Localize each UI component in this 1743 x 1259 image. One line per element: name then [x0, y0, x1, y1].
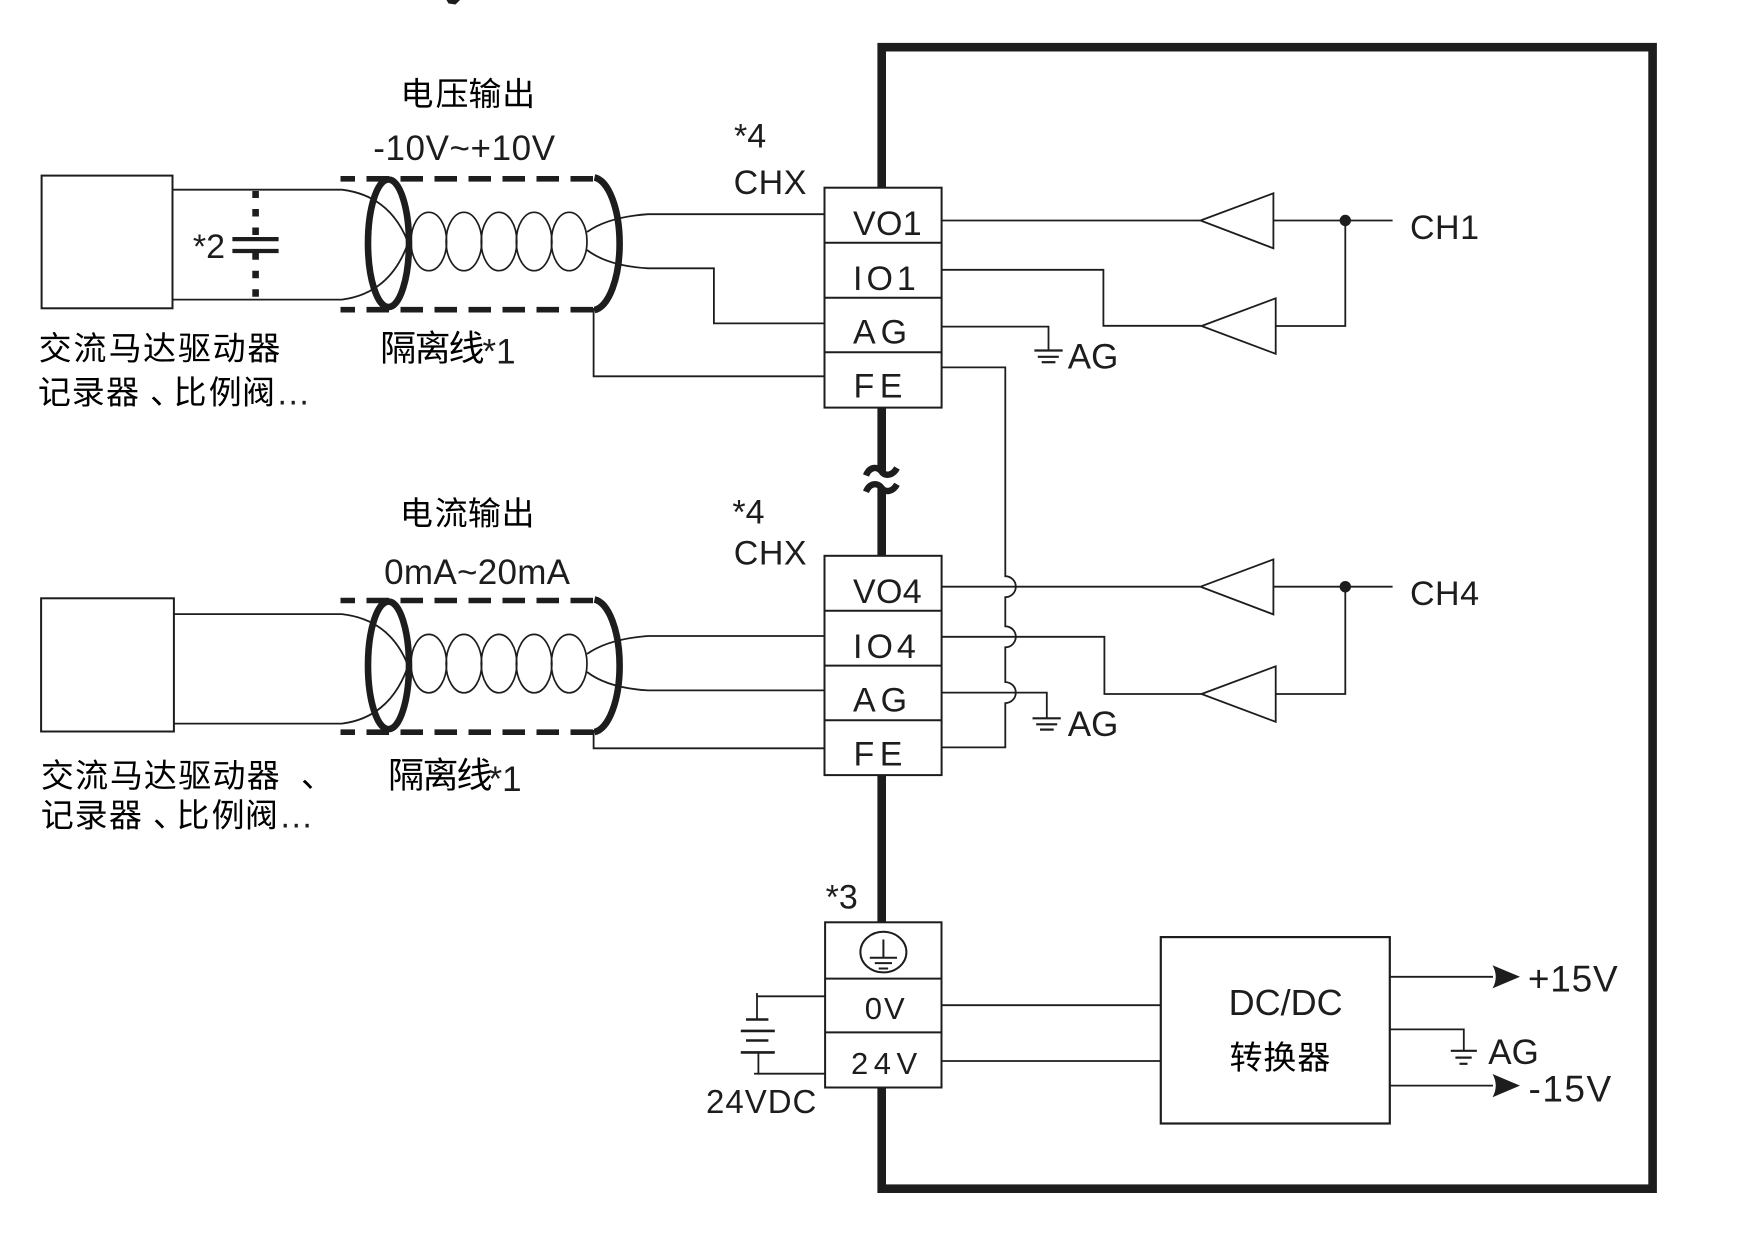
wire cable1 to AG	[587, 250, 825, 323]
svg-text:*4: *4	[734, 118, 766, 156]
cable 2 shield dashed bottom	[341, 729, 598, 735]
wire node CH4 stub	[1345, 586, 1392, 588]
svg-text:CH1: CH1	[1410, 209, 1480, 247]
svg-text:...: ...	[281, 797, 314, 835]
label 转换器	[1231, 1041, 1261, 1071]
wire cable2 to IO4	[587, 636, 825, 654]
wire B2 top to cable	[174, 614, 410, 671]
ground AG (block1)	[1034, 349, 1062, 351]
svg-text:-10V~+10V: -10V~+10V	[373, 129, 556, 168]
cable 1 twisted pair loops	[411, 212, 447, 270]
svg-text:DC/DC: DC/DC	[1229, 982, 1343, 1023]
wire AG1 to ground	[942, 327, 1049, 350]
cable 2 shield right arc	[595, 600, 620, 733]
wire B1 top to cable	[173, 190, 411, 248]
svg-text:AG: AG	[853, 314, 912, 352]
wire cable1 to VO1	[587, 214, 825, 232]
svg-text:0mA~20mA: 0mA~20mA	[384, 553, 571, 592]
wire B2 bottom to cable	[174, 660, 410, 724]
svg-text:FE: FE	[854, 368, 908, 406]
caption B1 line1 交流马达驱动器	[40, 332, 70, 363]
battery 24VDC plates	[746, 1018, 768, 1021]
wire node CH1 to A2	[1276, 221, 1346, 327]
svg-text:0V: 0V	[865, 991, 907, 1026]
cable 1 shield dashed bottom	[341, 307, 598, 313]
wire 0V to battery	[757, 996, 825, 1019]
terminal block CH4	[825, 556, 942, 775]
wire FE1 to FE4 (with hops)	[942, 367, 1016, 747]
svg-text:CHX: CHX	[734, 164, 807, 202]
svg-text:*2: *2	[193, 228, 225, 266]
cable 2 shield dashed top	[341, 598, 598, 604]
svg-text:CHX: CHX	[734, 535, 807, 573]
svg-text:AG: AG	[1068, 705, 1119, 744]
svg-text:VO4: VO4	[853, 573, 922, 611]
arrow -15V	[1493, 1074, 1521, 1097]
terminal block power	[825, 922, 941, 1087]
cable 1 shield dashed top	[341, 176, 598, 182]
svg-text:...: ...	[278, 375, 311, 413]
node CH4 junction	[1340, 581, 1351, 592]
bus break gap	[873, 472, 891, 488]
label 隔离线 2	[391, 759, 422, 791]
wire node CH1 stub	[1345, 220, 1392, 222]
wire cable2 shield to FE4	[594, 730, 825, 748]
wire VO4 to amplifier A3	[942, 586, 1200, 588]
wire A3 to node CH4	[1273, 586, 1345, 588]
module frame	[882, 47, 1653, 1189]
cable 1 shield right arc	[595, 178, 620, 311]
svg-text:-15V: -15V	[1529, 1069, 1613, 1110]
wire B1 bottom to cable	[173, 237, 411, 300]
pin PE (protective earth symbol)	[860, 932, 906, 973]
svg-text:24VDC: 24VDC	[706, 1083, 817, 1120]
wire -15V	[1390, 1085, 1493, 1087]
label 隔离线 1	[383, 332, 414, 364]
wire 24V to DC/DC	[942, 1060, 1161, 1062]
device box B2 (load)	[41, 598, 174, 731]
svg-text:IO4: IO4	[853, 628, 920, 666]
terminal block CH1	[825, 188, 942, 408]
svg-text:*3: *3	[826, 879, 858, 917]
cable 2 shield left ellipse	[368, 602, 409, 730]
wire IO4 to amplifier A4	[942, 637, 1201, 694]
caption B2 line2 记录器、比例阀	[42, 800, 72, 829]
wire A1 to node CH1	[1273, 220, 1345, 222]
amplifier A3	[1201, 559, 1274, 614]
ground AG (block2)	[1033, 717, 1061, 719]
wire IO1 to amplifier A2	[942, 270, 1201, 326]
ground AG (DC/DC)	[1451, 1050, 1477, 1052]
svg-text:AG: AG	[1488, 1033, 1539, 1072]
wire battery to 24V	[758, 1052, 825, 1073]
wire 24V corner tick	[754, 1073, 758, 1075]
amplifier A1	[1201, 193, 1274, 248]
svg-text:*4: *4	[732, 494, 764, 532]
svg-text:+15V: +15V	[1528, 959, 1619, 1000]
svg-text:CH4: CH4	[1410, 575, 1480, 613]
node CH1 junction	[1340, 215, 1351, 226]
svg-text:*1: *1	[489, 760, 522, 799]
svg-text:FE: FE	[854, 736, 908, 774]
svg-text:*1: *1	[483, 333, 516, 372]
wire 0V to DC/DC	[942, 1004, 1161, 1006]
wire node CH4 to A4	[1276, 587, 1346, 694]
DC/DC converter box U1	[1161, 937, 1390, 1123]
wire 0V corner tick	[756, 993, 758, 996]
wire VO1 to amplifier A1	[942, 220, 1200, 222]
capacitor *2 dashed line	[252, 191, 259, 238]
wire cable1 shield to FE	[594, 308, 825, 376]
label 电流输出	[404, 497, 432, 527]
capacitor *2 plates	[232, 237, 278, 241]
amplifier A4	[1202, 666, 1276, 722]
svg-text:VO1: VO1	[853, 205, 922, 243]
cable 1 shield left ellipse	[368, 180, 409, 308]
svg-text:24V: 24V	[851, 1046, 923, 1081]
svg-text:IO1: IO1	[853, 260, 920, 298]
bus break symbol	[866, 468, 897, 476]
caption B2 line1 交流马达驱动器、	[42, 759, 72, 790]
svg-text:AG: AG	[853, 682, 912, 720]
cable 2 twisted pair loops	[411, 634, 447, 692]
svg-text:AG: AG	[1068, 338, 1119, 377]
wire AG4 to ground	[942, 693, 1047, 718]
label 电压输出	[405, 78, 433, 108]
amplifier A2	[1202, 298, 1276, 354]
wire AG (DC/DC)	[1390, 1029, 1464, 1050]
wire +15V	[1390, 976, 1493, 978]
device box B1 (load)	[42, 176, 173, 309]
clipped title fragment	[447, 0, 461, 5]
arrow +15V	[1493, 965, 1521, 988]
wire cable2 to AG4	[587, 672, 825, 690]
caption B1 line2 记录器、比例阀	[39, 377, 69, 406]
